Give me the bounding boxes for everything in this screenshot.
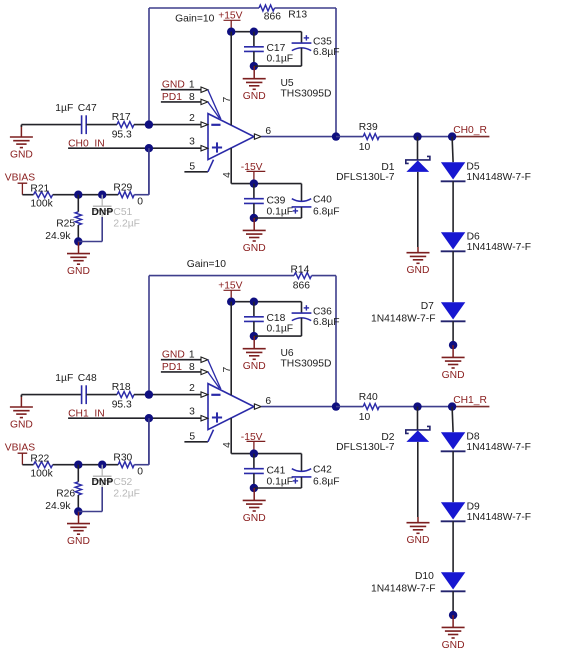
svg-text:5: 5	[189, 162, 195, 173]
pin 3 (+)	[189, 137, 208, 151]
svg-text:1N4148W-7-F: 1N4148W-7-F	[371, 313, 435, 324]
pin 7 (V+)	[222, 302, 233, 396]
wire DNP cap bottom	[78, 217, 102, 242]
junction C18 bottom	[250, 332, 258, 340]
wire pin 2	[134, 394, 201, 396]
wire pin1 to op-amp	[208, 90, 221, 120]
svg-text:GND: GND	[442, 370, 465, 381]
svg-text:VBIAS: VBIAS	[5, 173, 35, 184]
junction C17 top	[250, 28, 258, 36]
svg-text:95.3: 95.3	[112, 130, 132, 141]
wire diode chain 3	[452, 591, 454, 615]
svg-text:R40: R40	[359, 392, 378, 403]
svg-text:5: 5	[189, 432, 195, 443]
svg-text:3: 3	[189, 407, 195, 418]
svg-text:GND: GND	[407, 265, 430, 276]
svg-text:6.8µF: 6.8µF	[313, 476, 340, 487]
ground (diode chain)	[442, 615, 465, 651]
node CH1_R	[452, 395, 489, 406]
svg-text:7: 7	[222, 97, 233, 103]
svg-text:R18: R18	[112, 382, 131, 393]
svg-text:C40: C40	[313, 195, 332, 206]
svg-text:4: 4	[222, 442, 233, 448]
capacitor C35 6.8µF polarized	[292, 32, 340, 66]
diode D1 DFLS130L-7	[336, 137, 430, 247]
svg-text:0.1µF: 0.1µF	[267, 476, 294, 487]
ground (input)	[10, 396, 33, 431]
junction CH0_R	[448, 132, 456, 140]
svg-text:THS3095D: THS3095D	[281, 358, 332, 369]
wire R to node	[379, 136, 452, 138]
diode D10 1N4148W-7-F	[371, 571, 465, 594]
wire cap to R	[86, 394, 117, 396]
wire pin 2	[134, 124, 201, 126]
svg-text:1: 1	[189, 350, 195, 361]
svg-text:6.8µF: 6.8µF	[313, 206, 340, 217]
wire diode chain 2	[452, 251, 454, 302]
junction C41 bottom	[250, 484, 258, 492]
junction R25 top	[74, 191, 82, 199]
pin 6 output	[254, 126, 336, 140]
svg-text:R14: R14	[291, 264, 310, 275]
svg-text:2: 2	[189, 383, 195, 394]
svg-text:24.9k: 24.9k	[45, 501, 71, 512]
svg-text:6: 6	[265, 396, 271, 407]
svg-text:CH0_R: CH0_R	[453, 125, 487, 136]
wire pin3 down	[148, 418, 150, 465]
svg-text:GND: GND	[243, 243, 266, 254]
junction C52 top	[98, 461, 106, 469]
wire pin3 down	[148, 148, 150, 195]
svg-text:GND: GND	[67, 536, 90, 547]
label Gain=10	[175, 13, 214, 24]
capacitor C51 2.2µF DNP	[92, 195, 140, 230]
junction D1 branch	[413, 132, 421, 140]
wire feedback loop U6	[149, 276, 336, 407]
pin 8 PD1 input	[161, 92, 208, 105]
capacitor C42 6.8µF polarized	[292, 454, 340, 488]
wire feedback loop U5	[149, 8, 336, 137]
svg-text:R17: R17	[112, 112, 131, 123]
svg-text:R30: R30	[113, 452, 132, 463]
svg-text:C41: C41	[267, 465, 286, 476]
svg-text:+15V: +15V	[218, 280, 242, 291]
svg-text:7: 7	[222, 367, 233, 373]
svg-text:R13: R13	[288, 10, 307, 21]
junction pin3	[145, 414, 153, 422]
svg-text:95.3: 95.3	[112, 400, 132, 411]
label Gain=10	[187, 259, 226, 270]
wire -15V rail	[231, 183, 301, 185]
svg-text:10: 10	[359, 412, 371, 423]
ground (under D2)	[407, 517, 430, 546]
svg-text:0.1µF: 0.1µF	[267, 323, 294, 334]
op-amp U5 THS3095D	[208, 78, 331, 160]
junction +15V pin7 node	[227, 298, 235, 306]
wire input	[21, 395, 81, 397]
junction pin2 feedback	[145, 120, 153, 128]
svg-text:CH1_R: CH1_R	[453, 395, 487, 406]
svg-text:1N4148W-7-F: 1N4148W-7-F	[371, 583, 435, 594]
junction diode chain gnd	[449, 341, 457, 349]
diode D2 DFLS130L-7	[336, 407, 430, 517]
svg-text:6.8µF: 6.8µF	[313, 317, 340, 328]
wire decoupling bottom	[254, 65, 302, 67]
junction C17 bottom	[250, 62, 258, 70]
svg-text:R29: R29	[113, 182, 132, 193]
resistor R17 95.3	[112, 112, 134, 141]
pin 6 output	[254, 396, 336, 410]
ground (under R25)	[67, 242, 90, 278]
pin 7 (V+)	[222, 32, 233, 126]
wire +15V rail	[231, 301, 301, 303]
pin 4 (V-)	[222, 418, 233, 454]
svg-text:0.1µF: 0.1µF	[267, 206, 294, 217]
wire input	[21, 125, 81, 127]
svg-text:DFLS130L-7: DFLS130L-7	[336, 442, 395, 453]
svg-text:1µF: 1µF	[55, 373, 73, 384]
pin 5	[184, 430, 213, 443]
node CH1_IN	[68, 408, 201, 419]
power -15V	[241, 432, 265, 454]
svg-text:D9: D9	[467, 501, 480, 512]
svg-text:2.2µF: 2.2µF	[113, 218, 140, 229]
svg-text:GND: GND	[243, 513, 266, 524]
junction R26 bottom	[74, 507, 82, 515]
junction -15V rail	[250, 179, 258, 187]
diode D6 1N4148W-7-F	[441, 231, 531, 253]
capacitor C39 0.1µF	[244, 184, 293, 218]
svg-text:GND: GND	[442, 640, 465, 651]
wire output to R	[336, 406, 363, 408]
wire decoupling bottom 2	[254, 487, 302, 489]
resistor R18 95.3	[112, 382, 134, 411]
resistor R13 866	[259, 5, 307, 23]
wire diode chain 1	[452, 451, 454, 502]
svg-text:THS3095D: THS3095D	[281, 88, 332, 99]
svg-text:10: 10	[359, 142, 371, 153]
ground (under C17)	[243, 66, 266, 102]
svg-text:GND: GND	[162, 80, 185, 91]
svg-text:0: 0	[137, 466, 143, 477]
junction C39 bottom	[250, 214, 258, 222]
wire diode chain 2	[452, 521, 454, 572]
capacitor C36 6.8µF polarized	[292, 302, 340, 336]
ground (diode chain)	[442, 345, 465, 381]
svg-text:D7: D7	[421, 301, 434, 312]
diode D7 1N4148W-7-F	[371, 301, 465, 324]
svg-text:C47: C47	[78, 103, 97, 114]
svg-text:100k: 100k	[30, 198, 53, 209]
wire decoupling bottom	[254, 335, 302, 337]
wire R0 up	[134, 418, 149, 465]
svg-text:DFLS130L-7: DFLS130L-7	[336, 172, 395, 183]
power -15V	[241, 162, 265, 184]
svg-text:+15V: +15V	[218, 10, 242, 21]
resistor R21 100k	[30, 184, 53, 210]
svg-text:DNP: DNP	[92, 477, 114, 488]
svg-text:2.2µF: 2.2µF	[113, 488, 140, 499]
junction +15V pin7 node	[227, 28, 235, 36]
wire CH0_R to D5	[452, 137, 453, 163]
wire pin8 to op-amp	[208, 102, 220, 118]
pin 2 (-)	[189, 113, 208, 127]
svg-text:GND: GND	[407, 535, 430, 546]
wire DNP cap bottom	[78, 487, 102, 512]
svg-text:24.9k: 24.9k	[45, 231, 71, 242]
resistor R22 100k	[30, 454, 53, 480]
wire diode chain 3	[452, 321, 454, 345]
wire -15V rail	[231, 453, 301, 455]
svg-text:R25: R25	[56, 218, 75, 229]
wire pin8 to op-amp	[208, 372, 220, 388]
pin 8 PD1 input	[161, 362, 208, 375]
svg-text:3: 3	[189, 137, 195, 148]
pin 1 GND input	[161, 80, 208, 93]
svg-text:R39: R39	[359, 122, 378, 133]
pin 5	[184, 160, 213, 173]
diode D8 1N4148W-7-F	[441, 431, 531, 453]
svg-text:C52: C52	[113, 477, 132, 488]
wire CH1_R to D8	[452, 407, 453, 433]
resistor R14 866	[291, 264, 312, 291]
svg-text:C51: C51	[113, 207, 132, 218]
svg-text:1N4148W-7-F: 1N4148W-7-F	[467, 512, 531, 523]
capacitor C40 6.8µF polarized	[292, 184, 340, 218]
svg-text:866: 866	[264, 12, 281, 23]
power VBIAS	[5, 173, 35, 195]
svg-text:1: 1	[189, 80, 195, 91]
junction -15V rail	[250, 449, 258, 457]
junction CH1_R	[448, 402, 456, 410]
svg-text:C48: C48	[78, 373, 97, 384]
capacitor C41 0.1µF	[244, 454, 293, 488]
svg-text:0: 0	[137, 196, 143, 207]
ground (under C39)	[243, 218, 266, 254]
ground (under R26)	[67, 512, 90, 548]
svg-text:C39: C39	[267, 195, 286, 206]
svg-text:4: 4	[222, 172, 233, 178]
pin 3 (+)	[189, 407, 208, 421]
resistor R30 0	[113, 452, 143, 477]
capacitor C18 0.1µF	[244, 302, 293, 336]
svg-text:VBIAS: VBIAS	[5, 443, 35, 454]
svg-text:6.8µF: 6.8µF	[313, 47, 340, 58]
junction pin2 feedback	[145, 390, 153, 398]
svg-text:DNP: DNP	[92, 207, 114, 218]
wire R to node	[379, 406, 452, 408]
svg-text:1N4148W-7-F: 1N4148W-7-F	[466, 442, 530, 453]
junction output feedback	[332, 132, 340, 140]
junction R26 top	[74, 461, 82, 469]
resistor R25 24.9k	[45, 195, 81, 242]
svg-text:100k: 100k	[30, 468, 53, 479]
svg-text:1µF: 1µF	[55, 103, 73, 114]
capacitor C52 2.2µF DNP	[92, 465, 140, 500]
capacitor C47 1µF	[55, 103, 97, 134]
pin 1 GND input	[161, 350, 208, 363]
svg-text:D6: D6	[467, 231, 480, 242]
svg-text:GND: GND	[162, 350, 185, 361]
svg-text:GND: GND	[10, 420, 33, 431]
svg-text:GND: GND	[67, 266, 90, 277]
power +15V	[218, 10, 242, 31]
junction D2 branch	[413, 402, 421, 410]
diode D9 1N4148W-7-F	[441, 501, 531, 523]
wire R0 up	[134, 148, 149, 195]
power +15V	[218, 280, 242, 301]
wire pin1 to op-amp	[208, 360, 221, 390]
svg-text:0.1µF: 0.1µF	[267, 53, 294, 64]
wire VBIAS	[22, 464, 33, 466]
capacitor C17 0.1µF	[244, 32, 293, 66]
svg-text:R22: R22	[30, 454, 49, 465]
wire output to R	[336, 136, 363, 138]
ground (under C41)	[243, 488, 266, 524]
op-amp U6 THS3095D	[208, 348, 331, 430]
capacitor C48 1µF	[55, 373, 97, 404]
resistor R26 24.9k	[45, 465, 81, 512]
ground (input)	[10, 126, 33, 161]
pin 2 (-)	[189, 383, 208, 397]
svg-text:GND: GND	[243, 91, 266, 102]
svg-text:866: 866	[293, 280, 310, 291]
resistor R40 10	[359, 392, 379, 423]
svg-text:D10: D10	[415, 571, 434, 582]
svg-text:C36: C36	[313, 307, 332, 318]
junction output feedback	[332, 402, 340, 410]
svg-text:Gain=10: Gain=10	[175, 13, 214, 24]
junction C51 top	[98, 191, 106, 199]
ground (under C18)	[243, 336, 266, 372]
svg-text:R21: R21	[30, 184, 49, 195]
wire diode chain 1	[452, 181, 454, 232]
wire decoupling bottom 2	[254, 217, 302, 219]
diode D5 1N4148W-7-F	[441, 161, 531, 183]
node CH0_IN	[68, 138, 201, 149]
svg-text:D5: D5	[466, 161, 479, 172]
wire VBIAS	[22, 194, 33, 196]
svg-text:C35: C35	[313, 37, 332, 48]
svg-text:GND: GND	[10, 150, 33, 161]
svg-text:Gain=10: Gain=10	[187, 259, 226, 270]
resistor R29 0	[113, 182, 143, 207]
junction diode chain gnd	[449, 611, 457, 619]
svg-text:2: 2	[189, 113, 195, 124]
node CH0_R	[452, 125, 489, 136]
svg-text:1N4148W-7-F: 1N4148W-7-F	[467, 242, 531, 253]
wire +15V rail	[231, 31, 301, 33]
junction pin3	[145, 144, 153, 152]
resistor R39 10	[359, 122, 379, 153]
wire cap to R	[86, 124, 117, 126]
junction C18 top	[250, 298, 258, 306]
svg-text:R26: R26	[56, 488, 75, 499]
svg-text:GND: GND	[243, 361, 266, 372]
pin 4 (V-)	[222, 148, 233, 184]
svg-text:D8: D8	[466, 431, 479, 442]
power VBIAS	[5, 443, 35, 465]
svg-text:6: 6	[265, 126, 271, 137]
wire R to R	[53, 194, 119, 196]
junction R25 bottom	[74, 237, 82, 245]
svg-text:C42: C42	[313, 465, 332, 476]
svg-text:1N4148W-7-F: 1N4148W-7-F	[466, 172, 530, 183]
wire R to R	[53, 464, 119, 466]
ground (under D1)	[407, 247, 430, 276]
